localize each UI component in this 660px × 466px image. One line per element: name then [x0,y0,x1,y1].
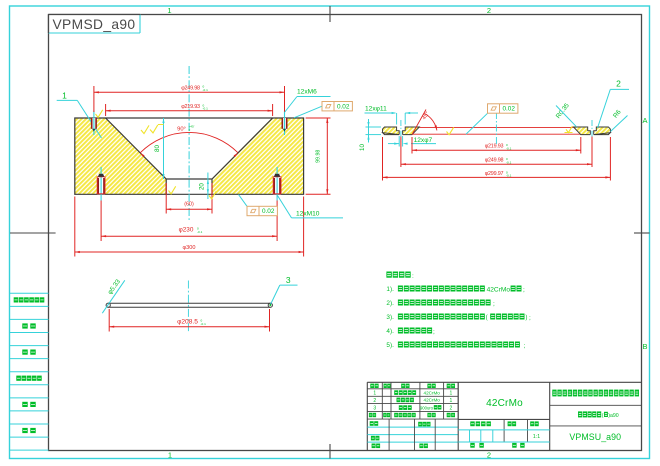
svg-text:5).: 5). [386,342,394,349]
svg-text:1: 1 [450,391,453,397]
tech requirement 3 [386,314,531,322]
zone tick bottom [329,444,331,459]
svg-text:900uro: 900uro [420,405,434,410]
tech requirement 4 [386,328,435,336]
svg-text:-0.1: -0.1 [506,174,512,178]
ring view centerline [495,112,497,146]
svg-text:0.02: 0.02 [502,106,515,113]
svg-text:0.02: 0.02 [337,103,350,110]
left margin box lines [10,293,49,450]
dimension (60) [166,183,212,214]
svg-text:2: 2 [616,79,621,89]
svg-text:2: 2 [487,6,491,15]
svg-text:2: 2 [373,398,376,404]
svg-text:φ208.5: φ208.5 [177,318,198,325]
svg-text:3).: 3). [386,314,394,321]
ring section left block [383,127,420,135]
svg-text:10: 10 [359,144,366,151]
svg-text:VPMSD_a90: VPMSD_a90 [53,17,136,32]
left margin label 借通用件登记 [14,297,45,302]
label R6 [611,108,628,131]
drawing title [578,411,619,418]
svg-text:0: 0 [189,128,191,132]
svg-text:VPMSU_a90: VPMSU_a90 [569,432,621,442]
sheet count labels [470,443,524,448]
svg-text:12xφ7: 12xφ7 [414,137,433,144]
weight/scale labels [470,421,538,426]
dimension phi208.5 [109,309,269,332]
main view right hatched section [212,118,304,194]
svg-text:-0.1: -0.1 [201,322,207,326]
tech requirement 2 [386,300,495,308]
surface mark top edge [96,110,103,118]
tapped hole M6 left [91,111,96,136]
svg-text:1:1: 1:1 [533,434,540,440]
main view V-cone cut outline [106,118,273,194]
ring section middle lines (red) [419,126,573,128]
svg-text:12xM6: 12xM6 [297,89,317,96]
svg-text:(: ( [602,413,604,419]
svg-text:;: ; [524,342,526,349]
dimension 10 [359,119,381,151]
svg-text:B: B [642,342,647,351]
material cell borders [457,382,459,450]
svg-text:φ219.93: φ219.93 [485,144,504,150]
flatness frame 0.02 (main bottom) [239,195,278,216]
dimension phi219.93 main [106,103,273,116]
left margin label 旧底图总号 [16,376,41,381]
dimension phi300 [75,197,304,257]
svg-text:;: ; [493,300,495,307]
svg-text::: : [412,273,414,280]
dimension phi219.93 ring [412,137,581,154]
surface mark slope [141,125,164,134]
dimension phi230 [101,201,277,242]
svg-text:-0.1: -0.1 [197,230,203,234]
ring hole centerline left [400,120,402,142]
svg-text:42CrMo: 42CrMo [487,286,511,293]
dimension 80 [154,118,165,179]
svg-text:20: 20 [199,183,206,190]
fold mark left [10,232,56,234]
zone tick right [634,232,650,234]
svg-text:42CrMo: 42CrMo [486,398,523,409]
svg-text:42CrMo: 42CrMo [424,398,441,403]
main view centerline [188,66,190,222]
label phi5.33 [102,278,125,313]
dimension phi249.98 [94,85,285,112]
svg-text:12xM10: 12xM10 [296,210,320,217]
svg-text:99.98: 99.98 [316,150,322,163]
title block outer [367,382,641,450]
main view part outline [75,118,304,194]
svg-text:(60): (60) [184,201,194,207]
oring centerline [187,281,189,334]
label R0.35 [555,102,577,127]
dimension 20 [199,173,209,200]
weight/scale grid [458,419,550,442]
svg-text:φ230: φ230 [179,226,194,233]
signature section grid [367,419,458,450]
balloon 3 [269,275,297,306]
parts row 3 [373,405,452,411]
svg-text:2: 2 [450,406,453,412]
right column borders [550,404,642,406]
ring section right block [574,127,611,135]
svg-text:-0.1: -0.1 [203,107,209,111]
tech requirement 1 [386,286,525,294]
surface mark bottom edge [209,191,216,199]
tapped hole M10 left [97,167,105,201]
svg-text:A: A [642,116,647,125]
svg-text:1: 1 [62,91,67,101]
svg-text:;: ; [523,286,525,293]
balloon 1 [57,91,102,139]
dimension phi299.97 [383,137,611,181]
svg-text:-0.1: -0.1 [506,146,512,150]
title box VPMSD_a90 [49,15,141,34]
parts row 1 [373,390,452,396]
label 12xM6 [285,89,331,113]
dimension phi249.98 ring [401,137,592,168]
svg-text:0.02: 0.02 [262,208,275,215]
dimension angle 90deg [140,125,239,157]
dimension 99.98 [306,118,331,194]
svg-text:12xφ11: 12xφ11 [365,106,387,113]
left margin label 描图 [22,323,35,328]
svg-text:3: 3 [373,406,376,412]
flatness frame 0.02 (main top) [294,102,352,118]
tapped hole M6 right [282,111,287,136]
svg-text:φ219.93: φ219.93 [181,104,200,110]
zone tick top [329,6,331,22]
parts list grid [367,382,458,419]
balloon 2 [598,79,630,129]
o-ring section [106,303,272,307]
left margin label 签字 [22,402,35,407]
svg-text:4).: 4). [386,328,394,335]
svg-text:42CrMo: 42CrMo [424,390,441,395]
svg-text:;: ; [433,328,435,335]
tech requirements title [386,272,414,280]
label 12xM10 [278,196,344,218]
parts row 2 [373,398,452,404]
svg-text:2: 2 [487,451,491,460]
svg-text:1: 1 [373,391,376,397]
surface mark ring top [447,127,454,134]
svg-text:φ299.97: φ299.97 [485,171,504,177]
left margin label 日期 [22,428,35,433]
dimension angle 45deg [412,110,438,135]
svg-text:80: 80 [154,145,161,152]
svg-text:-0.1: -0.1 [203,88,209,92]
institute name [552,390,639,397]
signature labels [370,421,431,448]
svg-text:φ249.98: φ249.98 [485,158,504,164]
flatness frame 0.02 (ring) [466,104,518,134]
tech requirement 5 [386,342,525,350]
svg-text:φ249.98: φ249.98 [181,85,200,91]
svg-text:1: 1 [450,398,453,404]
change-record header row [369,413,455,417]
surface mark ring right [565,126,573,132]
svg-text:;: ; [529,314,531,321]
tapped hole M10 right [273,167,281,201]
main view left hatched section [75,118,166,194]
svg-text:)a90: )a90 [608,413,618,419]
svg-text:1: 1 [167,6,171,15]
svg-text:1).: 1). [386,286,394,293]
surface mark V flat [169,186,176,194]
parts header row [370,384,455,388]
svg-text:90°: 90° [177,126,186,132]
svg-text:3: 3 [286,275,291,285]
svg-text:): ) [525,314,527,321]
label 12xphi7 [388,136,436,147]
left margin label 描校 [22,350,35,355]
svg-text:-0.1: -0.1 [506,160,512,164]
svg-text:2).: 2). [386,300,394,307]
svg-text:φ300: φ300 [183,245,196,251]
svg-text:1: 1 [168,451,172,460]
ring hole centerline right [591,120,593,142]
label 12xphi11 [365,106,419,125]
